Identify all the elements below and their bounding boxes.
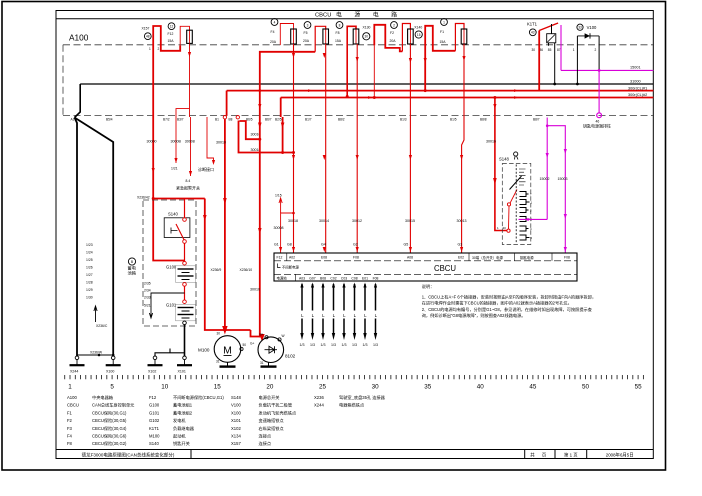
svg-text:1/23: 1/23 (86, 243, 93, 247)
svg-text:F8: F8 (336, 31, 340, 35)
svg-text:2/33: 2/33 (144, 296, 151, 300)
svg-text:X157: X157 (142, 26, 150, 30)
svg-text:A08: A08 (407, 256, 413, 260)
wire S140 bottom to battery G100 (184, 243, 186, 261)
svg-text:X100: X100 (106, 370, 114, 374)
svg-text:45: 45 (529, 384, 537, 391)
switch S148 power master/ignition switch (499, 152, 533, 245)
svg-text:S148: S148 (499, 157, 509, 162)
svg-text:连接点: 连接点 (259, 433, 272, 440)
svg-text:30013: 30013 (457, 219, 467, 223)
svg-text:F12: F12 (168, 32, 174, 36)
svg-text:X236/C: X236/C (96, 324, 108, 328)
wire bus 300r1 left end to pin B1 (226, 91, 228, 116)
svg-text:钥匙开关: 钥匙开关 (173, 440, 190, 447)
svg-text:电器箱搭铁点: 电器箱搭铁点 (339, 402, 364, 409)
svg-text:S140: S140 (149, 441, 159, 446)
svg-text:1/3: 1/3 (300, 343, 305, 347)
svg-text:15003: 15003 (558, 177, 568, 181)
svg-text:在进行电焊作业时需拔下CBCU的插接器，图中的A02就表示A: 在进行电焊作业时需拔下CBCU的插接器，图中的A02就表示A插接器的2号孔位。 (422, 300, 572, 307)
wire 3000B to 1/21 (171, 117, 182, 171)
svg-text:F1: F1 (440, 30, 444, 34)
svg-text:C02: C02 (330, 276, 336, 280)
svg-text:F1: F1 (67, 410, 73, 415)
wire F12 output to pin B3/7 (176, 43, 191, 117)
svg-text:300r(CL)#2: 300r(CL)#2 (628, 93, 647, 97)
svg-text:X236/9: X236/9 (211, 268, 222, 272)
svg-text:蓄电池组2: 蓄电池组2 (173, 409, 193, 416)
svg-text:CBCU保险(30,G5): CBCU保险(30,G5) (92, 417, 127, 424)
box A100 dashed outline (63, 45, 653, 116)
svg-text:30014: 30014 (319, 219, 329, 223)
ECU CBCU box (274, 253, 577, 281)
svg-text:钥匙电源端排柱: 钥匙电源端排柱 (583, 123, 611, 129)
wire net 30018 link B8 to B2/5 and F4 line (239, 121, 296, 155)
svg-text:起动机: 起动机 (173, 433, 186, 440)
svg-text:1、CBCU上有A~F 6个插接器，安装时按照由A至F的顺序: 1、CBCU上有A~F 6个插接器，安装时按照由A至F的顺序安装，拆卸时按由F向… (422, 294, 596, 301)
wire G100 to G101 with branch labels (144, 282, 185, 319)
wire F5 output net 30014 to CBCU E08 (319, 44, 329, 253)
svg-text:33: 33 (578, 26, 582, 30)
svg-text:2/35: 2/35 (144, 282, 151, 286)
svg-text:蓄电池组1: 蓄电池组1 (173, 402, 193, 409)
svg-text:B+: B+ (260, 333, 264, 337)
notes text (422, 283, 596, 319)
svg-text:300r(CL)#1: 300r(CL)#1 (628, 86, 647, 90)
switch S140 (164, 212, 190, 244)
connector X130 bridge (363, 25, 403, 99)
svg-text:连接点: 连接点 (259, 440, 272, 447)
svg-text:负载抗干扰二极管: 负载抗干扰二极管 (259, 402, 293, 409)
svg-text:1/3: 1/3 (352, 343, 357, 347)
svg-text:B1/3: B1/3 (400, 117, 407, 121)
svg-text:CAN总线车身控制单元: CAN总线车身控制单元 (92, 402, 134, 409)
net 15001 magenta bus (561, 66, 653, 71)
label battery box circled B (128, 258, 137, 276)
svg-text:X244: X244 (70, 370, 78, 374)
svg-text:2、CBCU的电源均有编号，分别是G1~G8，参见说明，在维: 2、CBCU的电源均有编号，分别是G1~G8，参见说明，在维修时如出现故障，可按… (422, 306, 593, 313)
wire net 15002 key switch feed (519, 118, 550, 221)
svg-text:CBCU保险(30,G1): CBCU保险(30,G1) (92, 409, 127, 416)
svg-text:15A: 15A (440, 40, 447, 44)
svg-text:10: 10 (161, 384, 169, 391)
svg-text:G07: G07 (309, 276, 316, 280)
svg-text:M100: M100 (149, 434, 160, 439)
svg-text:F3: F3 (67, 426, 73, 431)
svg-text:A100: A100 (69, 33, 89, 43)
svg-text:15A: 15A (168, 39, 175, 43)
svg-text:1/3: 1/3 (310, 343, 315, 347)
svg-text:85: 85 (548, 48, 552, 52)
svg-text:30008: 30008 (185, 140, 195, 144)
fuse F5 20A (303, 22, 329, 52)
battery G101 (166, 300, 196, 325)
svg-text:1/24: 1/24 (86, 251, 93, 255)
svg-text:8: 8 (339, 23, 341, 27)
legend table text (67, 394, 386, 447)
CBCU ground output wires (300, 283, 379, 348)
wire X130 to F2 feed (402, 24, 410, 52)
svg-text:1/3: 1/3 (321, 343, 326, 347)
svg-text:15002: 15002 (540, 177, 550, 181)
svg-text:1/15: 1/15 (275, 194, 282, 198)
svg-text:M100: M100 (198, 348, 210, 353)
svg-text:B08: B08 (320, 276, 326, 280)
wire pin B2/5 branch to net 30018 (281, 98, 285, 153)
svg-text:变速箱搭铁点: 变速箱搭铁点 (259, 417, 284, 424)
svg-text:55: 55 (635, 384, 643, 391)
svg-text:5: 5 (110, 384, 114, 391)
svg-text:C03: C03 (341, 276, 347, 280)
fuse F4 20A (270, 19, 296, 45)
svg-text:X140: X140 (414, 26, 422, 30)
ground X100 (106, 356, 121, 374)
wire F4 output net 30018 to CBCU A02 (287, 44, 298, 253)
svg-text:30016: 30016 (486, 140, 496, 144)
svg-text:驾驶室_底盘35孔 连接器: 驾驶室_底盘35孔 连接器 (339, 394, 386, 401)
relay K1T1 (527, 22, 561, 53)
svg-text:30018: 30018 (288, 219, 298, 223)
svg-text:M: M (223, 345, 232, 357)
svg-text:B1/5: B1/5 (450, 117, 457, 121)
wire X157 bridge pins 1-2 (149, 26, 180, 51)
svg-text:B7/2: B7/2 (163, 117, 170, 121)
net 31000 black ground bus (80, 79, 653, 84)
svg-text:1/29: 1/29 (86, 288, 93, 292)
svg-text:B8/8: B8/8 (480, 117, 487, 121)
wire V100 pin2 to 15001 and key terminal 46 (598, 36, 601, 113)
svg-text:德龙F3000电路原理图(CAN总线系统变化部分): 德龙F3000电路原理图(CAN总线系统变化部分) (82, 452, 175, 459)
svg-text:8102: 8102 (285, 354, 296, 359)
svg-text:F12: F12 (277, 256, 283, 260)
svg-text:右纵梁搭铁点: 右纵梁搭铁点 (259, 425, 284, 432)
fuse F12 15A (168, 23, 193, 44)
net 300r(CL)#2 red bus (281, 93, 654, 99)
svg-text:询，例如诊断出“G8电源故障”，则按图查A02线路电源。: 询，例如诊断出“G8电源故障”，则按图查A02线路电源。 (422, 312, 526, 319)
svg-text:31: 31 (260, 361, 264, 365)
svg-text:电 源 电 路: 电 源 电 路 (336, 11, 403, 19)
wire to ground X102 (155, 349, 185, 357)
svg-text:2/34: 2/34 (144, 289, 151, 293)
svg-text:12: 12 (170, 25, 174, 29)
node B1 terminal (223, 116, 226, 119)
svg-text:1: 1 (443, 20, 445, 24)
svg-text:F4: F4 (67, 434, 73, 439)
svg-text:V100: V100 (587, 25, 597, 30)
svg-text:20A: 20A (303, 39, 310, 43)
svg-text:G4: G4 (321, 243, 326, 247)
svg-text:E01: E01 (362, 276, 368, 280)
node 46 key power stud (583, 113, 611, 129)
svg-text:G1: G1 (274, 243, 279, 247)
node B8 terminal (236, 116, 239, 119)
wire V100 pin1 to net 31000 (576, 36, 579, 86)
svg-text:V100: V100 (231, 403, 241, 408)
wire F4 group feed from bus 300r1 (258, 52, 315, 117)
svg-text:1/3: 1/3 (331, 343, 336, 347)
svg-text:B1: B1 (215, 117, 219, 121)
svg-text:20A: 20A (270, 40, 277, 44)
svg-text:F08: F08 (564, 256, 570, 260)
svg-text:1: 1 (149, 47, 151, 51)
fuse F2 20A (390, 22, 414, 44)
svg-text:35: 35 (424, 384, 432, 391)
svg-text:CBCU保险(30,G2): CBCU保险(30,G2) (92, 440, 127, 447)
svg-text:A100: A100 (67, 395, 77, 400)
svg-text:B5/4: B5/4 (106, 117, 113, 121)
wire net 15003 to CBCU key power (546, 124, 568, 253)
svg-text:50: 50 (243, 343, 247, 347)
A100 bottom edge pin labels (71, 117, 540, 121)
svg-text:第 1 页: 第 1 页 (564, 452, 578, 459)
svg-text:2008年6月5日: 2008年6月5日 (606, 452, 634, 459)
svg-text:不间断电源保险(CBCU,G1): 不间断电源保险(CBCU,G1) (173, 394, 224, 401)
svg-text:G5: G5 (404, 243, 409, 247)
svg-text:电源总开关: 电源总开关 (259, 394, 280, 401)
svg-text:8.4: 8.4 (186, 179, 191, 183)
svg-text:30008: 30008 (274, 226, 284, 230)
wire F12 feed (180, 26, 189, 46)
svg-text:15A: 15A (335, 39, 342, 43)
wire K1T1 pin87 to net 15001 (560, 25, 562, 70)
svg-text:30端（总开关）电源: 30端（总开关）电源 (472, 255, 504, 260)
svg-text:A03: A03 (299, 276, 305, 280)
svg-text:中央电器箱: 中央电器箱 (92, 394, 113, 401)
svg-text:B1/7: B1/7 (305, 117, 312, 121)
svg-text:K1T1: K1T1 (527, 22, 538, 27)
svg-text:A02: A02 (289, 256, 295, 260)
wire diagnostic port stub (198, 117, 215, 172)
wire S140 top to starter feed (153, 198, 205, 200)
svg-text:CBCU: CBCU (315, 12, 331, 18)
wire 30008 to hazard switch (176, 117, 200, 191)
svg-text:说明：: 说明： (422, 283, 435, 290)
svg-text:B6/7: B6/7 (265, 117, 272, 121)
svg-text:2: 2 (158, 47, 160, 51)
net 300r(CL)#1 red bus (227, 86, 654, 92)
svg-text:B3/7: B3/7 (177, 117, 184, 121)
svg-text:池箱: 池箱 (128, 269, 136, 276)
svg-text:G+: G+ (250, 342, 254, 346)
svg-text:4: 4 (274, 20, 276, 24)
border frame inner (56, 11, 653, 459)
wire X236/C crossing label (77, 324, 114, 356)
wire K1T1 coil pin85 to net 31000 (549, 24, 557, 85)
wire G101 minus to ground X101 (184, 325, 186, 356)
svg-text:X236/10: X236/10 (240, 268, 253, 272)
wire labels 1/23 to 1/30 (86, 243, 93, 300)
wire starter feed from S140 down to motors (203, 199, 251, 331)
wire K1T1 pin30 to bus 300r1 (538, 31, 540, 91)
svg-text:F8: F8 (67, 441, 73, 446)
svg-text:15001: 15001 (630, 66, 641, 70)
svg-text:X134: X134 (231, 434, 241, 439)
svg-text:X102: X102 (231, 426, 241, 431)
svg-text:G101: G101 (149, 410, 160, 415)
svg-text:S140: S140 (168, 212, 178, 217)
svg-text:CBCU: CBCU (434, 264, 456, 273)
svg-text:X236: X236 (314, 395, 324, 400)
svg-text:1/27: 1/27 (86, 273, 93, 277)
svg-text:1/21: 1/21 (171, 167, 178, 171)
svg-text:B8/2: B8/2 (338, 117, 345, 121)
svg-text:30: 30 (372, 384, 380, 391)
svg-text:G2: G2 (353, 243, 358, 247)
svg-text:F4: F4 (271, 30, 275, 34)
svg-text:3000B: 3000B (171, 140, 182, 144)
svg-text:43: 43 (531, 31, 535, 35)
svg-text:电源地: 电源地 (277, 275, 288, 280)
wire F8 output net 30012 to CBCU F08 (352, 44, 362, 253)
svg-text:20: 20 (266, 384, 274, 391)
svg-text:X101: X101 (178, 370, 186, 374)
svg-text:31: 31 (216, 360, 220, 364)
svg-text:K1T1: K1T1 (149, 426, 160, 431)
svg-text:B8: B8 (229, 117, 233, 121)
svg-text:G100: G100 (149, 403, 160, 408)
svg-text:20A: 20A (390, 39, 397, 43)
battery compartment dashed box (143, 200, 196, 326)
svg-text:不间断电源: 不间断电源 (282, 264, 300, 269)
wire ignition feed net 30016 from bus 300r2 (486, 96, 517, 232)
svg-text:G8: G8 (287, 243, 292, 247)
wire battery minus harness from net 31000 to node A1 (75, 84, 114, 356)
svg-text:诊断接口: 诊断接口 (198, 166, 214, 172)
svg-text:30: 30 (365, 35, 369, 39)
svg-text:F08: F08 (373, 276, 379, 280)
wire net 30010 from pin B8 step to starter feed (240, 121, 262, 141)
svg-text:2: 2 (595, 48, 597, 52)
svg-text:发动机飞轮壳搭铁点: 发动机飞轮壳搭铁点 (259, 409, 297, 416)
svg-text:30000: 30000 (147, 140, 157, 144)
svg-text:1/30: 1/30 (86, 296, 93, 300)
ground X102 (148, 356, 163, 374)
connector X140 bridge (414, 26, 455, 92)
svg-text:B2/5: B2/5 (275, 117, 282, 121)
motor M100 (198, 332, 246, 364)
svg-text:30015: 30015 (405, 219, 415, 223)
ground below 8102 (261, 362, 277, 366)
svg-text:F08: F08 (353, 256, 359, 260)
svg-text:G3: G3 (458, 243, 463, 247)
svg-text:C08: C08 (351, 276, 357, 280)
svg-text:1/3: 1/3 (373, 343, 378, 347)
wire F1 output net 30013 to CBCU E02 (457, 44, 467, 253)
svg-text:1/28: 1/28 (86, 281, 93, 285)
title block bottom bar (56, 450, 653, 459)
svg-text:X157: X157 (231, 441, 241, 446)
ground X101 (177, 356, 192, 374)
battery G100 (166, 261, 196, 286)
svg-text:87: 87 (557, 48, 561, 52)
CBCU top row pin labels (277, 255, 570, 260)
svg-text:发电机: 发电机 (173, 417, 186, 424)
svg-text:1/3: 1/3 (342, 343, 347, 347)
svg-text:F2: F2 (67, 418, 73, 423)
svg-text:25: 25 (319, 384, 327, 391)
wire 30000 battery feed X157 to S140/G100 (137, 47, 185, 261)
svg-text:50: 50 (582, 384, 590, 391)
svg-text:G102: G102 (149, 418, 160, 423)
svg-text:1: 1 (68, 384, 72, 391)
svg-text:共 页: 共 页 (530, 452, 549, 459)
svg-text:X130: X130 (363, 25, 371, 29)
wire 1/15 branch to CBCU F12 pin net G1 (274, 194, 295, 254)
fuse F1 15A (440, 19, 467, 44)
svg-text:X101: X101 (231, 418, 241, 423)
wire F2 output net 30015 to CBCU A08 (404, 44, 416, 253)
svg-text:X244: X244 (314, 403, 324, 408)
svg-text:CBCU保险(30,G4): CBCU保险(30,G4) (92, 425, 127, 432)
svg-text:30: 30 (532, 48, 536, 52)
svg-text:B8/7: B8/7 (533, 117, 540, 121)
svg-text:30012: 30012 (352, 219, 362, 223)
title bar line (56, 18, 653, 20)
svg-text:15: 15 (214, 384, 222, 391)
wire net 30010 from pin B1 to M100 (216, 119, 252, 335)
wire arrow 1/30 branch (94, 306, 97, 322)
ruler scale (65, 375, 644, 391)
svg-text:E08: E08 (321, 256, 327, 260)
svg-text:15: 15 (417, 33, 421, 37)
svg-text:F5: F5 (304, 31, 308, 35)
svg-text:5/21: 5/21 (144, 304, 151, 308)
svg-text:30: 30 (217, 332, 221, 336)
svg-text:X102: X102 (148, 370, 156, 374)
CBCU second row label (278, 264, 300, 270)
svg-text:CBCU保险(30,G6): CBCU保险(30,G6) (92, 433, 127, 440)
svg-text:负载继电器: 负载继电器 (173, 425, 195, 432)
svg-text:紧急报警开关: 紧急报警开关 (176, 185, 200, 191)
wire X140 to F1 feed (455, 24, 464, 51)
svg-text:W: W (282, 334, 285, 338)
svg-text:B6/5: B6/5 (246, 117, 253, 121)
svg-text:30010: 30010 (216, 141, 226, 145)
ground X244 (70, 356, 85, 374)
svg-text:CBCU: CBCU (67, 403, 79, 408)
svg-text:40: 40 (477, 384, 485, 391)
generator 8102 (250, 333, 296, 366)
svg-text:钥匙电源: 钥匙电源 (520, 255, 534, 260)
ground below M100 (220, 362, 236, 366)
svg-text:48: 48 (146, 35, 150, 39)
svg-text:S148: S148 (231, 395, 241, 400)
svg-text:1/3: 1/3 (363, 343, 368, 347)
svg-text:1/25: 1/25 (86, 258, 93, 262)
svg-text:3: 3 (307, 23, 309, 27)
svg-text:F12: F12 (149, 395, 157, 400)
svg-text:31000: 31000 (630, 79, 641, 83)
fuse F8 15A (335, 22, 359, 98)
diode V100 (573, 24, 599, 52)
svg-text:1: 1 (573, 48, 575, 52)
svg-text:X236/W: X236/W (90, 351, 103, 355)
svg-text:30010: 30010 (250, 288, 260, 292)
svg-text:30: 30 (503, 226, 507, 230)
svg-text:X100: X100 (231, 410, 241, 415)
svg-text:X236/42: X236/42 (137, 196, 150, 200)
svg-text:F2: F2 (390, 31, 394, 35)
CBCU bottom row pin labels (277, 275, 379, 280)
svg-text:2: 2 (393, 23, 395, 27)
connector X157 terminal (142, 26, 152, 39)
svg-text:1/26: 1/26 (86, 266, 93, 270)
svg-text:E02: E02 (458, 256, 464, 260)
wire net 30010 main feed to generator 8102 (250, 117, 265, 342)
